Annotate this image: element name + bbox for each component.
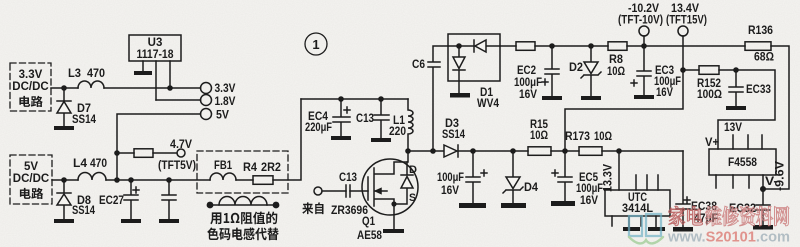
terminal 3.3V [201, 83, 212, 94]
svg-text:220μF: 220μF [305, 120, 332, 134]
svg-text:SS14: SS14 [72, 112, 96, 126]
ground D4 [501, 203, 526, 208]
svg-text:-10.2V: -10.2V [628, 3, 659, 15]
terminal 1.8V [201, 95, 212, 106]
ground U3 [134, 71, 152, 75]
ground EC27 [121, 219, 141, 223]
diode D1 vertical [453, 46, 465, 93]
svg-text:D4: D4 [524, 180, 538, 194]
svg-text:Q1: Q1 [362, 214, 375, 228]
label EC2 100uF 16V [514, 63, 542, 101]
svg-text:SS14: SS14 [442, 127, 465, 141]
capacitor EC32 [756, 189, 770, 225]
ground EC32 [753, 225, 773, 230]
svg-text:1117-18: 1117-18 [137, 49, 175, 61]
label 4.7V [170, 139, 192, 151]
resistor series D1 [516, 42, 535, 51]
svg-text:2R2: 2R2 [261, 160, 281, 174]
ground 100uF [459, 203, 486, 208]
ground EC5 [551, 201, 575, 206]
label pin D [409, 164, 417, 176]
label R15 10ohm [530, 117, 548, 142]
block 3.3V DC/DC circuit [10, 63, 51, 111]
ground UTC pin4 [648, 227, 665, 231]
ground EC3 [634, 95, 654, 99]
ground UTC pin2 [623, 227, 640, 231]
block 5V DC/DC circuit [10, 155, 52, 204]
label L3 470 [68, 66, 105, 80]
node junction D8 [61, 177, 67, 183]
capacitor EC27 [124, 180, 139, 219]
label -10.2V TFT-10V [618, 3, 663, 27]
node junction D2 [588, 43, 594, 49]
svg-text:13.3V: 13.3V [603, 164, 615, 192]
label balloon 1 [312, 37, 319, 52]
label TFT5V [158, 160, 196, 172]
node junction D7 [61, 85, 67, 91]
label 13.3V vertical [603, 164, 615, 192]
wire 5V rail from box [52, 179, 78, 181]
diode D1 horizontal [474, 40, 486, 52]
block FB1 R4 dashed [197, 151, 288, 193]
svg-text:13V: 13V [724, 122, 742, 134]
IC UTC 3414L [605, 190, 670, 216]
svg-text:1: 1 [312, 37, 319, 52]
svg-text:470: 470 [87, 66, 105, 80]
inductor L4 [78, 173, 106, 180]
wire F4558 top pins [733, 135, 762, 149]
wire FB1 to R4 [236, 179, 253, 181]
label pin S [409, 192, 416, 204]
transistor Q1 internals [368, 151, 408, 229]
label L4 470 [73, 156, 107, 170]
IC U3 1117-18 [129, 35, 181, 61]
svg-text:10Ω: 10Ω [530, 128, 548, 142]
label D7 SS14 [72, 101, 96, 126]
svg-text:3.3V: 3.3V [19, 69, 43, 81]
label R4 2R2 [243, 160, 281, 174]
note replacement inductor [207, 197, 280, 209]
node junction 4.7V tap [114, 150, 120, 156]
wire UTC top pins [636, 175, 658, 190]
wire F4558 bottom pins [716, 175, 763, 189]
wire D1 internal [448, 45, 500, 47]
transistor Q1 [362, 159, 418, 215]
label L1 220 [389, 113, 406, 138]
svg-text:10Ω: 10Ω [594, 129, 612, 143]
svg-text:100Ω: 100Ω [697, 87, 722, 101]
label Q1 AE58 [357, 214, 382, 242]
svg-text:16V: 16V [656, 85, 673, 99]
capacitor C6 [428, 46, 448, 151]
node junction EC4 [338, 96, 344, 102]
wire U3 pin2 to 1.8V [155, 61, 157, 100]
label EC5 100uF 16V [576, 170, 603, 207]
label C6 [412, 57, 425, 71]
wire top rail [301, 98, 408, 100]
capacitor C bypass 5V [162, 180, 176, 219]
svg-text:220: 220 [389, 124, 406, 138]
watermark logo book icon [629, 214, 663, 243]
node junction V- [760, 186, 766, 192]
node junction 5V rail riser [114, 177, 120, 183]
label EC4 220uF [305, 109, 332, 134]
svg-text:5V: 5V [24, 161, 38, 173]
svg-text:F4558: F4558 [728, 155, 757, 169]
capacitor EC5 [552, 151, 572, 201]
capacitor EC2 [542, 46, 559, 96]
wire terminal -10.2V stub [643, 36, 645, 46]
svg-text:16V: 16V [580, 193, 598, 207]
resistor R136 [745, 42, 771, 51]
label terminal 5V [216, 110, 229, 122]
resistor 4.7V series [134, 149, 153, 158]
label C13 gate [339, 170, 357, 184]
inductor L1 [408, 99, 413, 151]
node junction C13 [378, 96, 384, 102]
wire 1.8V net [156, 99, 201, 101]
svg-text:C13: C13 [339, 170, 357, 184]
label terminal 3.3V [215, 83, 236, 95]
terminal 4.7V TFT5V [177, 149, 185, 157]
svg-text:-9.6V: -9.6V [775, 161, 787, 191]
wire 3.3V net from L3 to terminal [104, 87, 201, 89]
label U3 1117-18 [137, 37, 175, 61]
resistor R15 [528, 147, 551, 156]
note text replace with 1ohm color-code inductor [207, 212, 278, 241]
svg-text:470: 470 [90, 156, 107, 170]
wire 5V net [117, 114, 201, 180]
node junction D1 [456, 43, 462, 49]
svg-text:WV4: WV4 [477, 96, 499, 110]
wire drain rail [408, 150, 683, 152]
terminal gate input [314, 187, 322, 195]
wire 5V rail to FB1 [106, 179, 210, 181]
svg-text:DC/DC: DC/DC [13, 173, 49, 185]
diode D8 [57, 180, 71, 219]
label UTC 3414L [622, 190, 653, 215]
capacitor C13 gate [346, 185, 350, 197]
wire to 4.7V terminal [153, 152, 177, 154]
label R136 68ohm [748, 23, 774, 64]
svg-text:L4: L4 [73, 156, 87, 170]
label C13 top [356, 111, 374, 125]
svg-text:R4: R4 [243, 160, 257, 174]
diode D2 zener [581, 46, 601, 96]
label -9.6V vertical [775, 161, 787, 191]
resistor R4 [253, 176, 273, 185]
svg-text:D2: D2 [569, 60, 583, 74]
svg-text:68Ω: 68Ω [754, 50, 774, 64]
label R173 10ohm [565, 129, 612, 143]
svg-text:16V: 16V [519, 87, 537, 101]
wire C13 to gate [350, 190, 368, 192]
label D4 [524, 180, 538, 194]
resistor R152 [699, 66, 719, 75]
ground EC33 [726, 106, 746, 110]
ground D7 [54, 126, 74, 130]
wire 4.7V branch [117, 152, 134, 154]
terminal -10.2V [639, 26, 649, 36]
node junction EC27 [128, 177, 134, 183]
label FB1 [214, 158, 232, 172]
svg-text:5V: 5V [216, 110, 229, 122]
label 3.3V DC/DC block [12, 69, 48, 107]
svg-text:L3: L3 [68, 66, 81, 80]
diode D7 [57, 88, 71, 126]
svg-text:4.7V: 4.7V [170, 139, 192, 151]
svg-text:SS14: SS14 [72, 203, 95, 217]
label 100uF 16V after D3 [437, 170, 464, 197]
wire 3.3V net from box to L3 [51, 87, 78, 89]
svg-text:S: S [409, 192, 416, 204]
svg-text:www.S20101.com: www.S20101.com [667, 230, 790, 246]
node junction EC2 [549, 43, 555, 49]
diode D3 [444, 145, 458, 157]
label R152 100ohm [697, 76, 722, 101]
node junction EC5 [562, 148, 568, 154]
capacitor 100uF 16V [466, 151, 487, 203]
capacitor EC3 [631, 46, 651, 95]
ground EC38 [673, 227, 693, 232]
label V+ [705, 137, 719, 149]
ground D8 [54, 219, 74, 223]
wire negative rail [500, 45, 745, 47]
ground EC4 [331, 136, 351, 140]
svg-text:13.4V: 13.4V [671, 3, 699, 15]
IC U1 F4558 [709, 149, 776, 175]
label EC38 47uF [691, 199, 718, 225]
label D8 SS14 [72, 193, 95, 217]
svg-text:(TFT-10V): (TFT-10V) [618, 15, 663, 27]
label F4558 [728, 155, 757, 169]
ground C13 top [371, 138, 391, 142]
svg-text:R173: R173 [565, 129, 590, 143]
svg-text:R136: R136 [748, 23, 773, 37]
label D2 [569, 60, 583, 74]
svg-text:100μF: 100μF [437, 170, 464, 184]
node junction D4 [510, 148, 516, 154]
svg-text:D: D [409, 164, 417, 176]
watermark text url [667, 230, 790, 246]
inductor L3 [78, 81, 104, 88]
wire U3 pin1 [142, 61, 144, 71]
svg-text:V+: V+ [705, 137, 719, 149]
diode block D1 WV4 [448, 34, 500, 81]
wire 13.4V vertical [565, 36, 683, 151]
ground C bypass [159, 219, 179, 223]
ground Q1 source [383, 229, 404, 233]
capacitor EC4 [333, 99, 350, 136]
wire UTC supply [618, 151, 620, 190]
label from ZR3696 [302, 202, 368, 217]
node junction 100uF after D3 [470, 148, 476, 154]
label EC32 [729, 201, 756, 215]
svg-text:FB1: FB1 [214, 158, 232, 172]
terminal 5V [201, 109, 212, 120]
wire gate input [322, 190, 346, 192]
label D1 WV4 [477, 85, 499, 110]
node junction L1 drain [405, 148, 411, 154]
wire U3 pin3 to 3.3V [169, 61, 171, 88]
svg-text:1.8V: 1.8V [215, 96, 236, 108]
svg-text:16V: 16V [441, 183, 459, 197]
node junction C6 drain [430, 148, 436, 154]
capacitor EC33 [729, 70, 743, 106]
svg-text:(TFT15V): (TFT15V) [666, 15, 707, 27]
node junction C rail [166, 177, 172, 183]
node balloon 1 [305, 33, 327, 55]
label 13V [724, 122, 742, 134]
label V- [765, 176, 778, 188]
node junction 13.3V UTC [616, 148, 622, 154]
ground D2 [581, 96, 601, 100]
node junction EC3 [641, 43, 647, 49]
capacitor C13 top [374, 99, 389, 138]
inductor FB1 [210, 173, 236, 180]
diode Q1 body [394, 162, 413, 204]
svg-text:C13: C13 [356, 111, 374, 125]
svg-text:10Ω: 10Ω [607, 64, 625, 78]
svg-text:C6: C6 [412, 57, 425, 71]
capacitor EC38 [676, 151, 690, 227]
wire UTC bottom pins [612, 216, 656, 227]
label terminal 1.8V [215, 96, 236, 108]
svg-text:3.3V: 3.3V [215, 83, 236, 95]
label EC3 100uF 16V [654, 63, 681, 99]
label R8 10ohm [607, 52, 625, 78]
resistor R8 [608, 42, 627, 51]
label D3 SS14 [442, 116, 465, 141]
svg-text:EC27: EC27 [99, 193, 124, 207]
diode D4 zener [503, 151, 523, 203]
label EC27 [99, 193, 124, 207]
wire R136 to V- [763, 46, 789, 189]
ground D1 [450, 93, 470, 98]
terminal 13.4V [678, 26, 688, 36]
node junction EC33 [733, 67, 739, 73]
wire R4 to riser [273, 99, 301, 180]
ground EC2 [542, 96, 562, 100]
watermark text site name [669, 206, 789, 226]
svg-text:DC/DC: DC/DC [12, 81, 48, 93]
label EC33 [746, 82, 771, 96]
label 13.4V TFT15V [666, 3, 707, 27]
node junction U3 input [167, 85, 173, 91]
node junction R152 tap [680, 67, 686, 73]
resistor R173 [579, 147, 602, 156]
label 5V DC/DC block [13, 161, 49, 199]
svg-text:AE58: AE58 [357, 228, 382, 242]
svg-text:(TFT5V): (TFT5V) [158, 160, 196, 172]
wire R152 branch [683, 70, 775, 149]
svg-text:U3: U3 [148, 37, 163, 49]
svg-text:EC33: EC33 [746, 82, 771, 96]
